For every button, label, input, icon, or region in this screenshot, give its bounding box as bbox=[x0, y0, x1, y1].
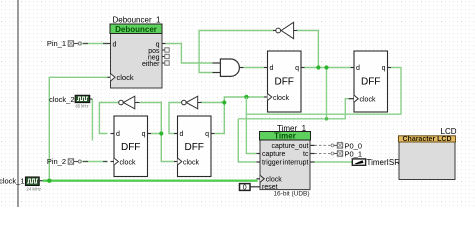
svg-text:q: q bbox=[142, 131, 146, 138]
svg-text:Debouncer: Debouncer bbox=[115, 25, 157, 34]
Debouncer U1 bbox=[108, 16, 170, 89]
wire: inverter3 output to AND gate input B bbox=[199, 31, 273, 73]
wire: trigger feed bbox=[238, 119, 256, 162]
page border line bbox=[17, 0, 19, 207]
svg-text:clock_2: clock_2 bbox=[49, 95, 74, 104]
Pin_1 bbox=[47, 39, 78, 48]
svg-text:capture: capture bbox=[262, 151, 285, 158]
svg-text:d: d bbox=[356, 65, 360, 72]
svg-text:tc: tc bbox=[303, 151, 309, 158]
svg-text:clock: clock bbox=[360, 97, 376, 104]
wire: channel line to DFF4 clock bbox=[327, 99, 349, 119]
AND gate bbox=[212, 59, 243, 76]
svg-text:Timer: Timer bbox=[274, 132, 296, 141]
svg-text:capture_out: capture_out bbox=[272, 143, 309, 150]
inverter2 bbox=[182, 96, 202, 109]
wire: clock_1 net (24 MHz) to Timer clock bbox=[43, 179, 258, 181]
svg-text:q: q bbox=[295, 65, 299, 72]
svg-text:Pin_1: Pin_1 bbox=[47, 39, 66, 48]
wire: clock_1 riser to Debouncer clock bbox=[49, 77, 107, 180]
wire: AND output to DFF3 d bbox=[244, 67, 265, 69]
junction: riser top corner bbox=[222, 100, 226, 104]
constant 0 (reset) bbox=[240, 184, 253, 192]
Pin_2 bbox=[47, 157, 78, 166]
wire: Debouncer q to AND gate input A bbox=[166, 44, 213, 64]
svg-text:65 kHz: 65 kHz bbox=[76, 103, 89, 108]
inverter3 bbox=[273, 22, 297, 38]
svg-text:q: q bbox=[382, 65, 386, 72]
junction: capture branch bbox=[244, 95, 248, 99]
svg-text:q: q bbox=[205, 131, 209, 138]
wire: DFF3 q branch up to inverter3 input bbox=[297, 31, 318, 68]
clock_2 (65 kHz) bbox=[49, 95, 92, 109]
clock_1 (24 MHz) bbox=[0, 177, 43, 192]
svg-text:clock: clock bbox=[273, 95, 289, 102]
DFF U4 (top) bbox=[264, 51, 305, 112]
wire: Timer interrupt to TimerISR bbox=[315, 161, 353, 163]
svg-text:24 MHz: 24 MHz bbox=[27, 186, 41, 191]
svg-text:d: d bbox=[270, 65, 274, 72]
svg-text:DFF: DFF bbox=[274, 77, 293, 88]
svg-text:Pin_2: Pin_2 bbox=[47, 157, 66, 166]
pin P0_1 connection bbox=[315, 149, 363, 158]
wire: inverter1 output to DFF1 d bbox=[99, 103, 118, 134]
DFF U5 (top right) bbox=[349, 51, 392, 112]
Character LCD bbox=[399, 127, 457, 179]
svg-text:clock_1: clock_1 bbox=[0, 177, 25, 186]
TimerISR bbox=[352, 158, 400, 167]
svg-text:clock: clock bbox=[120, 159, 136, 166]
junction: clock_1 / riser bbox=[47, 179, 51, 183]
wire: DFF3 q branch down to channel bbox=[238, 68, 326, 119]
svg-text:DFF: DFF bbox=[361, 77, 380, 88]
svg-text:d: d bbox=[116, 131, 120, 138]
svg-text:DFF: DFF bbox=[184, 142, 203, 153]
svg-text:clock: clock bbox=[183, 159, 199, 166]
inverter1 bbox=[119, 96, 140, 109]
wire: clock_2 dangling net bbox=[91, 99, 93, 141]
wire: inverter2 output to DFF2 d bbox=[169, 103, 182, 134]
svg-text:LCD: LCD bbox=[441, 127, 457, 136]
DFF U3 (second toggle) bbox=[174, 116, 215, 177]
svg-text:DFF: DFF bbox=[121, 142, 140, 153]
svg-text:d: d bbox=[180, 131, 184, 138]
wire: DFF3 q to DFF4 d bbox=[305, 67, 351, 69]
junction: DFF3 q / inverter3 branch bbox=[316, 65, 320, 69]
svg-text:0: 0 bbox=[243, 185, 247, 192]
svg-text:clock: clock bbox=[266, 176, 282, 183]
svg-text:d: d bbox=[113, 41, 117, 48]
svg-text:Debouncer_1: Debouncer_1 bbox=[112, 16, 161, 25]
wire: DFF4 q down to channel line A bbox=[246, 68, 401, 115]
svg-text:trigger: trigger bbox=[262, 160, 283, 167]
DFF U2 (first toggle) bbox=[111, 116, 152, 177]
wire: Pin_1 to Debouncer d bbox=[78, 42, 107, 45]
pin P0_0 connection bbox=[315, 141, 363, 150]
svg-text:Character LCD: Character LCD bbox=[402, 136, 451, 143]
svg-text:either: either bbox=[142, 61, 160, 68]
wire: Pin_2 to DFF1 clock bbox=[78, 160, 107, 163]
svg-text:clock: clock bbox=[117, 73, 134, 82]
junction: DFF3 q / down branch bbox=[324, 65, 328, 69]
svg-text:16-bit (UDB): 16-bit (UDB) bbox=[273, 191, 309, 198]
svg-text:P0_1: P0_1 bbox=[345, 149, 363, 158]
wire: DFF1 q net to inverter1 input and DFF2 clock bbox=[140, 103, 175, 162]
svg-text:TimerISR: TimerISR bbox=[367, 158, 401, 167]
wire: DFF2 q net (riser, inverter2 input, DFF3 clock) bbox=[202, 97, 265, 134]
junction: DFF1 q bbox=[159, 131, 163, 135]
junction: channel split bbox=[325, 117, 329, 121]
Timer U6 bbox=[253, 124, 315, 198]
wire: capture feed bbox=[246, 97, 256, 154]
svg-text:interrupt: interrupt bbox=[283, 160, 309, 167]
